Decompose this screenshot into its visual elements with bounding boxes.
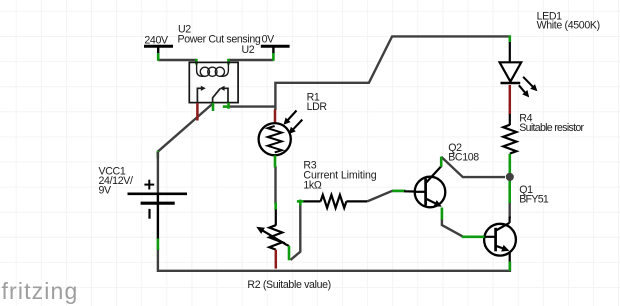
pin LED anode (connected) [508, 35, 511, 42]
svg-text:240V: 240V [144, 34, 169, 46]
transistor Q2 emitter lead with arrow [426, 199, 442, 207]
label U2 Power Cut sensing [178, 24, 261, 46]
wire R3 right to Q2 base [367, 191, 404, 202]
wire junction node down to Q1 collector [509, 180, 511, 218]
wire 240V terminal to relay coil pin 1 [158, 59, 196, 61]
variable resistor R2 [269, 210, 282, 250]
LED1 anode lead [509, 42, 511, 63]
transistor Q2 collector lead [426, 166, 441, 183]
power terminal 0V [261, 46, 290, 54]
svg-text:1kΩ: 1kΩ [303, 180, 321, 192]
battery bottom lead [157, 204, 159, 239]
relay U2 label [242, 44, 255, 56]
transistor Q1 emitter lead with arrow [496, 245, 510, 263]
label VCC1 24/12V/ 9V [99, 166, 133, 197]
pin U2 coil right (connected) [227, 59, 230, 65]
pin relay common (connected) [212, 103, 215, 111]
pin Q2 base (connected) [392, 190, 405, 193]
R2 wiper arrow [256, 227, 289, 246]
wire relay NO pin to LDR top node [229, 105, 276, 107]
label 240V [144, 34, 169, 46]
pin Q1 emitter (connected) [508, 262, 511, 271]
wire LDR top node up and across to LED anode [275, 36, 508, 110]
transistor Q1 body [484, 224, 516, 256]
pin 0V (connected) [272, 53, 275, 61]
pin relay NC (unconnected, red) [196, 103, 199, 121]
resistor R4 [503, 114, 516, 154]
pin R2 wiper (connected) [288, 246, 291, 260]
relay U2 switch contacts [197, 86, 228, 103]
pin Q2 collector (connected) [440, 157, 443, 167]
label R3 Current Limiting 1kOhm [303, 160, 376, 192]
pin relay NO (connected) [223, 103, 230, 109]
pin LED cathode (red) [509, 85, 512, 115]
pin R4 bottom (connected) [508, 154, 511, 174]
LDR R1 body [259, 123, 291, 155]
LED1 triangle [500, 62, 522, 81]
pin Q2 emitter (connected) [441, 208, 444, 220]
fritzing logo [2, 278, 79, 304]
label Q1 BFY51 [519, 184, 549, 206]
label R2 (Suitable value) [247, 279, 330, 291]
power terminal 240V [144, 46, 173, 54]
svg-text:Suitable resistor: Suitable resistor [519, 122, 584, 134]
battery plus sign [144, 180, 154, 190]
pin LDR bottom (connected) [274, 155, 277, 167]
label LED1 White (4500K) [537, 10, 600, 31]
pin R2 top (connected) [274, 203, 277, 211]
relay U2 coil [197, 62, 229, 76]
svg-text:White (4500K): White (4500K) [537, 20, 600, 32]
pin battery minus (connected) [157, 239, 160, 251]
LED1 light arrows [519, 77, 538, 98]
wire battery- down to ground rail across to Q1 emitter [158, 248, 510, 271]
svg-text:BC108: BC108 [448, 151, 479, 163]
resistor R3 [303, 195, 367, 208]
transistor Q1 collector lead [496, 217, 510, 231]
svg-text:R2 (Suitable value): R2 (Suitable value) [247, 279, 330, 291]
transistor Q2 body [415, 177, 446, 208]
pin Q1 base (connected) [462, 236, 485, 239]
Q2 base lead [404, 190, 415, 192]
svg-text:0V: 0V [262, 34, 276, 46]
battery VCC1 plus plate [128, 193, 188, 196]
pin R3 left (connected) [297, 200, 304, 206]
wire corner to battery + [157, 152, 159, 194]
svg-text:9V: 9V [99, 185, 113, 197]
pin LDR top (red) [274, 110, 277, 124]
pin R2 bottom (red) [275, 250, 278, 269]
pin 240V (connected) [157, 53, 160, 61]
label R1 LDR [307, 92, 328, 113]
wire Q2 collector to junction node [441, 157, 505, 177]
label 0V [262, 34, 276, 46]
svg-text:fritzing: fritzing [2, 278, 79, 304]
wire 0V terminal to relay coil pin 2 [229, 59, 274, 61]
wire R3 left pin down to R2 wiper [291, 203, 301, 260]
wire from battery+ corner to relay common pin [158, 103, 213, 151]
node battery+ corner (connected) [157, 151, 160, 158]
svg-text:LDR: LDR [307, 101, 328, 113]
battery minus mark [148, 209, 150, 219]
junction node dot [506, 173, 514, 181]
LED1 cathode bar [501, 82, 521, 85]
svg-text:U2: U2 [242, 44, 255, 56]
LDR light arrows [284, 111, 303, 135]
relay U2 body [189, 62, 238, 102]
wire Q2 emitter to Q1 base [442, 219, 463, 237]
label R4 Suitable resistor [519, 113, 584, 134]
battery VCC1 minus plate [141, 193, 175, 203]
pin U2 coil left (connected) [195, 59, 198, 65]
label Q2 BC108 [448, 142, 479, 163]
svg-text:Power Cut sensing: Power Cut sensing [178, 34, 261, 46]
relay U2 switch blade [213, 89, 221, 103]
wire LDR bottom to R2 top [274, 166, 276, 204]
svg-text:BFY51: BFY51 [519, 193, 549, 205]
